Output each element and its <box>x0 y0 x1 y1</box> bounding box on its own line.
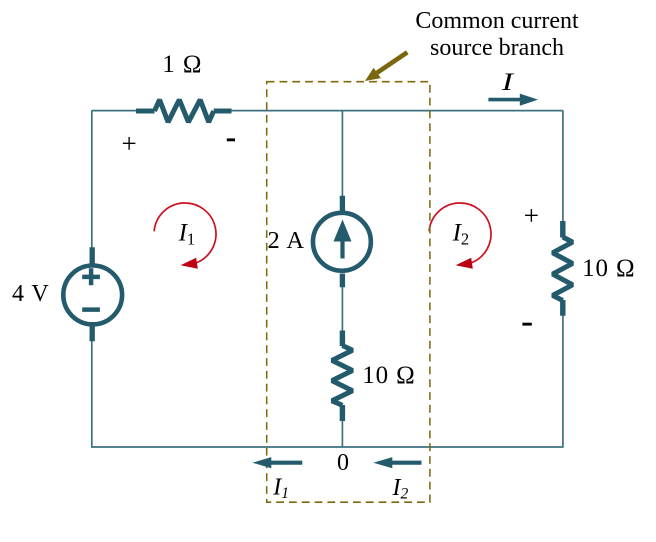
mesh label I2 <box>452 220 470 249</box>
value label 10 ohm (middle) <box>362 362 415 389</box>
current label I <box>501 69 516 96</box>
resistor R1 (1 ohm, top) <box>136 100 232 122</box>
svg-text:2 A: 2 A <box>268 227 305 254</box>
svg-text:+: + <box>122 129 137 159</box>
polarity - of R1 <box>227 138 235 141</box>
wire middle (current source I1 to R2) <box>341 287 343 331</box>
bottom current arrow I1 (teal, pointing left) <box>252 457 302 468</box>
polarity + of R3 <box>524 200 539 230</box>
wire left lower (V1 - terminal to bottom-left corner) <box>91 341 93 448</box>
value label 4 V <box>12 281 50 307</box>
svg-text:I1: I1 <box>178 220 196 249</box>
polarity - of R3 <box>522 323 531 326</box>
current source I1 (2 A) <box>313 196 371 288</box>
mesh current arrow I1 (red, clockwise) <box>154 203 216 269</box>
bottom label I1 <box>272 475 289 503</box>
resistor R3 (10 ohm, right) <box>553 221 573 316</box>
value label 1 ohm <box>162 51 202 78</box>
node 0 label <box>337 450 349 476</box>
wire bottom (node 0 net) <box>92 446 563 448</box>
svg-text:1 Ω: 1 Ω <box>162 51 202 78</box>
mesh current arrow I2 (red, clockwise) <box>429 203 491 269</box>
wire left upper (V1 + terminal to top-left corner) <box>91 110 93 247</box>
svg-text:4 V: 4 V <box>12 281 50 307</box>
polarity + of R1 <box>122 129 137 159</box>
mesh label I1 <box>178 220 196 249</box>
svg-text:I: I <box>501 69 516 96</box>
wire top (node between R1, current-source branch, R3) <box>92 110 563 112</box>
svg-text:Common current: Common current <box>415 8 579 34</box>
svg-text:I1: I1 <box>272 475 289 503</box>
resistor R2 (10 ohm, middle branch) <box>332 331 353 422</box>
wire right lower (R3 to bottom-right corner) <box>562 316 564 448</box>
svg-text:10 Ω: 10 Ω <box>582 255 635 282</box>
value label 10 ohm (right) <box>582 255 635 282</box>
svg-text:10 Ω: 10 Ω <box>362 362 415 389</box>
bottom current arrow I2 (teal, pointing left) <box>373 457 421 468</box>
voltage source V1 (4 V) <box>63 247 122 341</box>
wire middle upper (top node to current source I1) <box>341 110 343 196</box>
wire right upper (top-right corner to R3) <box>562 110 564 221</box>
branch current arrow I (top right) <box>488 94 538 106</box>
svg-text:+: + <box>524 200 539 230</box>
svg-text:I2: I2 <box>452 220 470 249</box>
annotation arrow (olive) <box>365 52 407 81</box>
value label 2 A <box>268 227 305 254</box>
svg-text:0: 0 <box>337 450 349 476</box>
svg-text:I2: I2 <box>392 475 409 503</box>
bottom label I2 <box>392 475 409 503</box>
dashed highlight box (common current source branch) <box>267 82 430 503</box>
wire middle lower (R2 to node 0) <box>341 421 343 447</box>
svg-text:source branch: source branch <box>430 35 564 61</box>
annotation text: Common current source branch <box>415 8 579 61</box>
